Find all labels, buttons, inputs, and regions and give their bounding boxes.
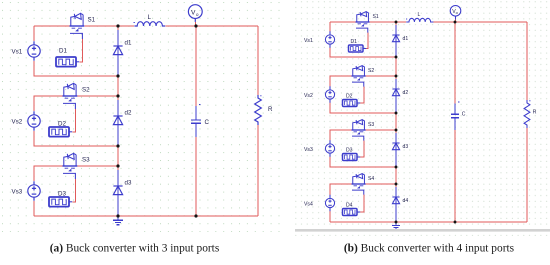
wire S2 drain link (b) [365, 75, 396, 77]
transistor S2 [63, 83, 78, 109]
wire bottom rail (b) [330, 221, 527, 223]
junction node (455,222) (b) [454, 221, 457, 224]
wire Vs1 negative lead (b) [330, 46, 396, 57]
junction node (196,26) [194, 24, 197, 27]
svg-text:S3: S3 [368, 122, 374, 128]
svg-text:D1: D1 [351, 39, 358, 45]
wire right edge below resistor [257, 125, 259, 216]
svg-text:Vs3: Vs3 [12, 189, 23, 196]
svg-text:S4: S4 [368, 176, 374, 182]
wire d1 leads (b) [395, 25, 397, 57]
wire connector d3-S4 (b) [395, 167, 397, 184]
diode d1 (b) [392, 35, 399, 42]
wire S3 drain link (b) [365, 129, 396, 131]
wire diode column stub under node A [117, 26, 119, 30]
wire Vs3 positive lead (b) [330, 130, 352, 142]
transistor S4 (b) [352, 174, 366, 195]
gating block D4 (b) [343, 209, 361, 216]
voltage source Vs2 (b) [325, 86, 334, 102]
svg-text:d3: d3 [403, 144, 409, 150]
wire Vs1 negative lead to node [34, 61, 118, 76]
wire probe lead [194, 22, 196, 26]
wire S1 gate lead (b) [366, 33, 368, 49]
svg-text:S1: S1 [88, 17, 96, 24]
svg-text:C: C [205, 119, 210, 126]
junction node (118,166) [116, 164, 119, 167]
wire connector d2 anode to S3 node [117, 146, 119, 166]
svg-text:D1: D1 [59, 48, 67, 55]
wire Vs3 negative lead to bottom rail [33, 201, 35, 216]
svg-text:C: C [462, 112, 466, 118]
wire Vs1 positive lead [33, 26, 35, 41]
wire stub under node (b1) [395, 22, 397, 25]
wire top rail Vs1 to S1 (b) [330, 21, 356, 23]
junction node (396,113) (b) [395, 112, 398, 115]
wire right edge above resistor (b) [526, 22, 528, 100]
wire S2 gate lead [73, 109, 76, 132]
wire S3 gate lead [73, 179, 76, 202]
wire Vs2 positive lead (b) [330, 76, 352, 88]
transistor S1 (b) [356, 12, 370, 33]
wire S4 gate lead (b) [360, 195, 364, 212]
wire Vs2 negative lead to node [34, 131, 118, 146]
junction node (396,167) (b) [395, 166, 398, 169]
gating block D1 [56, 57, 79, 67]
wire top rail S1 to inductor (b) [369, 21, 406, 23]
inductor L (b) [406, 18, 433, 22]
wire capacitor branch upper (b) [454, 22, 456, 104]
wire stub under node (b2) [395, 76, 397, 79]
gating block D2 (b) [343, 100, 361, 107]
diode d3 [113, 186, 122, 195]
wire connector d2-S3 (b) [395, 113, 397, 130]
junction node (396,130) (b) [395, 129, 398, 132]
wire probe lead (b) [455, 20, 457, 23]
wire d3 leads (b) [395, 133, 397, 167]
wire S2 drain to diode column [77, 95, 118, 97]
voltage source Vs1 [28, 41, 40, 61]
polarity mark near resistor R (b) [529, 100, 530, 102]
junction node (396,222) (b) [395, 221, 398, 224]
svg-text:o: o [196, 13, 199, 18]
wire capacitor branch upper [195, 26, 197, 106]
voltage probe V0 (b) [450, 6, 461, 20]
voltage source Vs3 [28, 181, 40, 201]
svg-text:S2: S2 [82, 87, 90, 94]
wire S3 gate lead (b) [360, 141, 364, 157]
gating block D3 [49, 197, 72, 207]
junction node (196,216) [194, 214, 197, 217]
junction node (118,216) [116, 214, 119, 217]
polarity dot of inductor [134, 22, 135, 24]
gating block D1 (b) [349, 45, 367, 52]
transistor S3 (b) [352, 120, 366, 141]
wire top rail S1 to inductor [84, 25, 134, 27]
svg-text:L: L [418, 12, 421, 18]
gating block D2 [49, 127, 72, 137]
transistor S1 [70, 13, 85, 39]
wire d1 cathode/anode leads [117, 30, 119, 76]
polarity mark near resistor R [260, 95, 261, 97]
svg-text:d2: d2 [403, 90, 409, 96]
wire d2 cathode/anode leads [117, 100, 119, 146]
wire capacitor branch lower (b) [454, 130, 456, 222]
wire d4 leads (b) [395, 187, 397, 222]
gating block D3 (b) [343, 154, 361, 161]
wire capacitor branch lower [195, 137, 197, 216]
svg-text:Vs2: Vs2 [304, 93, 313, 99]
transistor S2 (b) [352, 66, 366, 87]
svg-text:d1: d1 [403, 36, 409, 42]
resistor R (b) [524, 100, 530, 128]
wire S1 gate lead [80, 39, 83, 62]
svg-text:D2: D2 [346, 93, 353, 99]
capacitor C (b) [451, 102, 460, 130]
wire top rail inductor to corner (b) [433, 21, 527, 23]
wire connector d1-S2 (b) [395, 57, 397, 76]
wire d3 cathode/anode leads [117, 170, 119, 216]
polarity dot of inductor (b) [406, 18, 407, 20]
svg-text:Vs3: Vs3 [304, 147, 313, 153]
wire Vs4 positive lead (b) [330, 184, 352, 196]
diode d4 (b) [392, 197, 399, 204]
wire Vs2 positive lead [34, 96, 63, 111]
wire S3 drain to diode column [77, 165, 118, 167]
svg-text:d4: d4 [403, 198, 409, 204]
junction node (118,96) [116, 94, 119, 97]
resistor R [255, 95, 262, 125]
junction node (396,57) (b) [395, 56, 398, 59]
svg-text:Vs4: Vs4 [304, 202, 313, 208]
wire S2 gate lead (b) [360, 87, 364, 103]
wire top rail from Vs1 to S1 [34, 25, 70, 27]
transistor S3 [63, 153, 78, 179]
junction node (118,26) [116, 24, 119, 27]
junction node (455,22) (b) [454, 21, 457, 24]
svg-text:S3: S3 [82, 157, 90, 164]
ground (left circuit) [113, 216, 123, 225]
svg-text:D2: D2 [58, 121, 66, 128]
wire connector d1 anode to S2 node [117, 76, 119, 96]
wire Vs3 positive lead [34, 166, 63, 181]
svg-text:o: o [456, 11, 458, 15]
svg-text:R: R [533, 110, 537, 116]
voltage source Vs4 (b) [325, 195, 334, 211]
svg-text:Vs2: Vs2 [12, 119, 23, 126]
wire right edge below resistor (b) [526, 128, 528, 222]
svg-text:R: R [268, 106, 273, 113]
svg-text:Vs1: Vs1 [304, 38, 313, 44]
wire top rail inductor to top-right corner [165, 25, 258, 27]
svg-text:D4: D4 [346, 202, 353, 208]
junction node (396,184) (b) [395, 183, 398, 186]
diode d2 (b) [392, 89, 399, 96]
svg-text:D3: D3 [58, 191, 66, 198]
junction node (118,146) [116, 144, 119, 147]
wire bottom rail [34, 215, 258, 217]
svg-text:(b) Buck converter with 4 inpu: (b) Buck converter with 4 input ports [344, 243, 515, 255]
wire Vs4 negative lead (b) [329, 210, 331, 222]
svg-text:Vs1: Vs1 [12, 49, 23, 56]
svg-text:D3: D3 [346, 147, 353, 153]
wire Vs1 positive lead (b) [329, 22, 331, 33]
wire diode column stub under S2 node [117, 96, 119, 100]
wire right edge above resistor [257, 26, 259, 95]
svg-text:d1: d1 [125, 40, 132, 47]
wire stub under node (b4) [395, 184, 397, 187]
diode d3 (b) [392, 143, 399, 150]
ground (right circuit) [392, 222, 400, 229]
voltage source Vs2 [28, 111, 40, 131]
wire Vs3 negative lead (b) [330, 155, 396, 167]
voltage source Vs1 (b) [325, 31, 334, 47]
junction node (118,76) [116, 74, 119, 77]
svg-text:d3: d3 [125, 180, 132, 187]
wire d2 leads (b) [395, 79, 397, 113]
svg-text:(a) Buck converter with 3 inpu: (a) Buck converter with 3 input ports [50, 243, 220, 255]
window border line (right screenshot) [295, 229, 550, 232]
junction node (396,22) (b) [395, 21, 398, 24]
svg-text:d2: d2 [125, 110, 132, 117]
wire stub under node (b3) [395, 130, 397, 133]
capacitor C [191, 105, 201, 138]
inductor L [134, 22, 165, 26]
voltage source Vs3 (b) [325, 140, 334, 156]
wire diode column stub under S3 node [117, 166, 119, 170]
wire Vs2 negative lead (b) [330, 101, 396, 113]
diode d1 [113, 46, 122, 55]
junction node (396,76) (b) [395, 75, 398, 78]
voltage probe V0 [188, 5, 202, 22]
svg-text:L: L [148, 14, 152, 21]
diode d2 [113, 116, 122, 125]
svg-text:S1: S1 [373, 14, 379, 20]
wire S4 drain link (b) [365, 183, 396, 185]
svg-text:S2: S2 [368, 68, 374, 74]
